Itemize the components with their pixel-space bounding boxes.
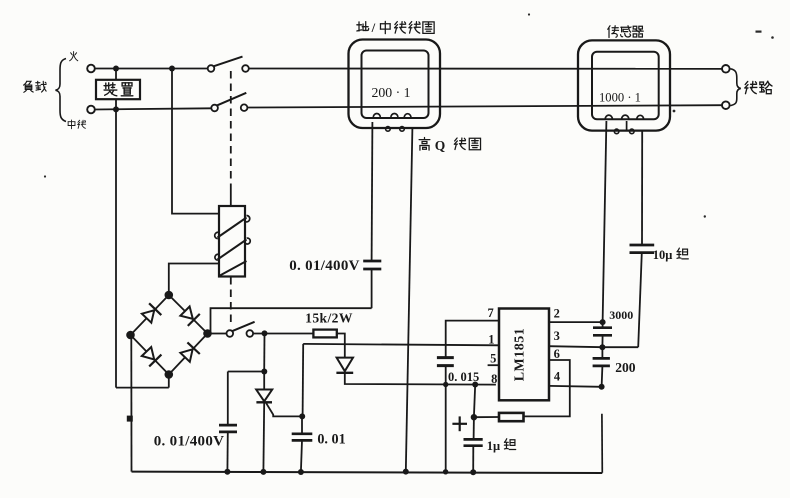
svg-text:15k/2W: 15k/2W: [305, 311, 353, 326]
wire: hot rail from switch to right terminal through both toroids: [249, 68, 722, 70]
svg-text:7: 7: [487, 306, 493, 320]
capacitor 0.01 (gate filter): [301, 416, 303, 433]
wire: feed from hot junction down to trip coil: [172, 69, 219, 214]
node: 0.01 cap to rail: [298, 469, 304, 475]
plus sign for tantalum cap: [452, 423, 467, 425]
svg-text:8: 8: [491, 372, 497, 386]
IC U1 LM1851 body: [499, 309, 549, 401]
bridge rectifier arms: [131, 295, 169, 335]
capacitor 200 (pin3-pin4): [601, 347, 603, 358]
wire: T1 right secondary lead down to ground rail: [406, 128, 413, 472]
capacitor 0.01/400V (snubber, lower-left): [227, 372, 229, 426]
wire: trip coil output to bridge top corner: [169, 264, 218, 295]
svg-text:1: 1: [488, 333, 494, 347]
svg-text:5: 5: [490, 352, 496, 366]
bridge diode D1 (upper-left arm): [142, 310, 154, 322]
wire: bridge right corner to latch switch: [211, 333, 226, 335]
wire: pin4 node down to ground rail (faded in scan): [601, 414, 603, 473]
device box lead (bottom) continuing as neutral down-lead: [115, 99, 117, 387]
ink blob on left down-lead: [127, 416, 133, 422]
label 高Q线圈 (high-Q coil): [419, 137, 430, 150]
bridge diode D3 (lower-left arm): [142, 347, 154, 360]
svg-text:200: 200: [615, 360, 636, 375]
capacitor 0.015 (timing): [437, 356, 454, 359]
pin 5 stub and label: [488, 364, 499, 366]
toroid transformer T1 ground/neutral coil outer core: [349, 40, 441, 129]
wire: bridge left corner down to ground rail: [130, 335, 132, 472]
wire: latch switch to 15k resistor, junction node: [253, 333, 313, 335]
bridge diode D2 (upper-right arm): [180, 307, 192, 319]
svg-text:0. 01/400V: 0. 01/400V: [289, 258, 360, 274]
terminal: hot line left open circle: [87, 65, 95, 73]
node: 1uF junction on pin-8 rail: [472, 382, 478, 388]
trip solenoid coil body: [219, 206, 245, 277]
svg-text:10μ: 10μ: [653, 248, 673, 262]
T2 middle winding lead: [626, 121, 628, 131]
T2 secondary winding bumps: [605, 115, 612, 119]
pin 4 wire and label: [549, 385, 602, 388]
wire: pin 1 long horizontal line to IC: [303, 344, 499, 345]
node: junction neutral to device box / down-lead: [113, 106, 119, 112]
node: bridge top corner: [165, 291, 174, 300]
toroid transformer T2 sensor outer core: [578, 40, 670, 130]
node: 0.015 lead to rail: [443, 469, 448, 474]
brace for load terminals: [56, 59, 67, 122]
node: bridge left corner: [126, 331, 135, 340]
diode D5 (series diode to IC supply): [337, 358, 353, 372]
wire: neutral branch across to bridge bottom corner: [116, 387, 169, 389]
terminal: hot right open circle: [722, 65, 730, 73]
mechanical dashed link from breaker contacts to trip coil and latch: [230, 71, 232, 190]
wire: neutral rail left section: [94, 108, 211, 109]
latch switch (SCR-reset contact) circles and lever: [227, 330, 234, 337]
svg-text:LM1851: LM1851: [513, 328, 528, 382]
toroid transformer T1 inner window: [362, 51, 429, 119]
svg-text:Q: Q: [435, 138, 446, 153]
node: pin4 junction: [599, 384, 605, 390]
switch S1b contact circles and lever (neutral pole): [211, 105, 218, 112]
wire: hot(live) rail left section: [94, 68, 208, 70]
node: 1uF cap to rail: [470, 469, 476, 475]
terminal: neutral left open circle: [87, 106, 95, 114]
wire: neutral rail from switch to right terminal: [247, 105, 722, 107]
wire: 10uF branch across to pin 3 node: [602, 346, 638, 348]
resistor 15k/2W: [313, 330, 336, 338]
SCR Q1 (thyristor) triangle and cathode bar: [263, 372, 265, 390]
label 线路 (line) with brace at right: [731, 69, 741, 106]
node: pin3 / 10uF / 200pF junction: [599, 344, 605, 350]
feedback resistor (pin6 to 1uF node): [474, 416, 499, 418]
wire: branch left to 0.01/400V snubber cap: [228, 371, 264, 373]
ground/common bottom rail: [132, 472, 603, 473]
svg-text:200 · 1: 200 · 1: [371, 85, 410, 100]
node: T1 lead to rail: [403, 469, 409, 475]
svg-text:4: 4: [554, 369, 561, 383]
svg-text:0. 01/400V: 0. 01/400V: [154, 434, 225, 450]
node: bridge right corner: [203, 329, 212, 338]
svg-text:1000 · 1: 1000 · 1: [599, 91, 641, 105]
wire: T2 right secondary lead down to 10uF cap: [641, 131, 643, 245]
label 地/中线线圈 (ground/neutral coil): [357, 22, 369, 31]
label 负载 (load): [24, 81, 34, 92]
node: SCR anode / snubber junction: [261, 369, 267, 375]
pin 6 wire down and left to feedback resistor: [524, 360, 570, 416]
node: junction hot to trip-coil feed: [169, 66, 175, 72]
capacitor 1uF tantalum: [473, 417, 475, 439]
toroid transformer T2 inner window: [592, 52, 659, 120]
wire: diode D5 cathode down then right along pin-8 supply rail: [345, 373, 496, 385]
wire: junction down from latch node to SCR anode: [263, 333, 265, 371]
node: snubber cap to rail: [224, 469, 230, 475]
wire: gate junction up to pin-1 sense line: [302, 344, 305, 417]
switch S1a contact circles and lever (hot pole): [208, 65, 215, 72]
protected device box 装置: [96, 80, 140, 99]
svg-text:1μ: 1μ: [487, 439, 500, 453]
label 传感器 (sensor): [608, 26, 619, 38]
wire: SCR cathode down to ground rail: [262, 402, 265, 472]
svg-text:3000: 3000: [609, 308, 633, 322]
scan specks: [528, 13, 530, 15]
pin 7 wire and label: [446, 321, 499, 358]
svg-text:3: 3: [554, 329, 560, 343]
T1 secondary winding bumps: [373, 113, 380, 117]
svg-text:2: 2: [554, 307, 560, 321]
svg-text:6: 6: [554, 347, 560, 361]
node: junction hot to protected-device box: [113, 66, 119, 72]
wire: bridge right corner up and across to 0.01/400V coupling cap: [211, 308, 372, 333]
wire: SCR gate lead to RC junction: [266, 403, 302, 416]
label 中线 (neutral): [68, 120, 75, 129]
node: SCR cathode to rail: [260, 469, 266, 475]
label 火 (hot): [70, 52, 78, 61]
node: 1uF / feedback resistor node: [471, 414, 477, 420]
terminal: neutral right open circle: [722, 101, 730, 109]
bridge diode D4 (lower-right arm): [180, 349, 192, 362]
wire: down to 1uF plus node: [474, 385, 475, 418]
capacitor 3000 (pin2-pin3): [602, 322, 604, 328]
capacitor 0.01/400V (high-Q coil tuning): [371, 269, 373, 308]
device box lead (top): [115, 69, 117, 81]
wire: 15k resistor output going down to series diode: [337, 334, 345, 358]
svg-text:/: /: [371, 20, 376, 35]
node: pin2 / sensor / 3000pF junction: [600, 319, 606, 325]
capacitor 10uF tantalum: [630, 244, 655, 247]
node: bridge bottom corner: [165, 370, 174, 379]
wire: T2 left secondary lead down to pin 2 node: [603, 121, 607, 322]
pin 2 wire and label: [549, 321, 603, 323]
svg-text:0. 01: 0. 01: [317, 431, 345, 447]
trip solenoid winding diagonals and side loops: [218, 218, 247, 238]
node: gate RC junction: [299, 413, 305, 419]
pin 3 wire and label: [549, 346, 602, 347]
